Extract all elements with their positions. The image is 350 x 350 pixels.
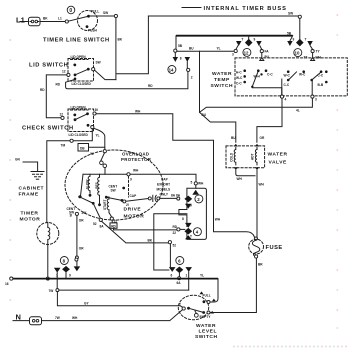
connector P1 (L1 disconnect plug): [29, 17, 41, 26]
svg-text:6: 6: [171, 274, 173, 278]
svg-text:C-C: C-C: [236, 82, 242, 86]
svg-text:WATER: WATER: [196, 323, 216, 329]
svg-text:BK: BK: [118, 38, 123, 42]
water temp switch contacts group 3: [310, 70, 327, 95]
svg-text:WH: WH: [135, 110, 141, 114]
svg-text:2W: 2W: [82, 211, 87, 215]
svg-text:9: 9: [190, 204, 192, 208]
svg-text:9: 9: [130, 178, 132, 182]
svg-text:SW: SW: [96, 61, 101, 65]
svg-text:OR: OR: [79, 247, 84, 251]
svg-text:PUSH: PUSH: [88, 29, 98, 33]
wire RD lid closed contact to timer 14 terminal 2: [56, 72, 188, 89]
svg-text:DB: DB: [80, 147, 85, 151]
svg-text:T: T: [190, 235, 192, 239]
svg-text:START: START: [103, 200, 107, 210]
svg-text:12: 12: [60, 113, 64, 117]
svg-text:PROTECTOR: PROTECTOR: [121, 157, 152, 162]
drive motor centrifugal switch upper: [105, 185, 129, 208]
wire YL full contact to neutral buss: [210, 279, 218, 302]
timer buss 2 (thick): [176, 32, 293, 36]
svg-text:7W: 7W: [55, 316, 60, 320]
svg-text:52: 52: [173, 244, 177, 248]
svg-text:1: 1: [186, 274, 188, 278]
svg-text:W-C: W-C: [299, 73, 306, 77]
svg-text:W-C: W-C: [236, 76, 243, 80]
svg-text:RES: RES: [95, 182, 99, 189]
svg-text:TM: TM: [61, 144, 66, 148]
wire 9 motor to contact 2: [127, 169, 204, 199]
svg-text:EXPORT: EXPORT: [157, 183, 170, 187]
wire GY to water level switch: [57, 292, 183, 308]
svg-text:6A: 6A: [177, 281, 182, 285]
svg-text:CAP: CAP: [130, 194, 138, 198]
terminal L1 label: [16, 16, 62, 25]
wire from contact box to contact 6: [154, 214, 187, 270]
svg-text:OR: OR: [79, 219, 84, 223]
svg-text:BU: BU: [189, 47, 194, 51]
svg-text:BK: BK: [148, 239, 153, 243]
svg-text:T: T: [305, 38, 307, 42]
wire RD motor 22 to contact 4: [114, 225, 185, 235]
lid switch: [62, 55, 101, 86]
box CAP EXPORT MODELS ONLY: [157, 178, 171, 197]
svg-text:YL: YL: [200, 274, 204, 278]
svg-text:9: 9: [69, 274, 71, 278]
timer contact 4: [182, 217, 201, 239]
svg-text:14: 14: [169, 67, 174, 72]
wire OR motor to contact 8: [75, 216, 84, 267]
water temp switch box: [235, 58, 347, 96]
svg-text:W-C: W-C: [284, 74, 291, 78]
water level switch: [178, 291, 211, 319]
svg-text:FA: FA: [265, 50, 270, 54]
svg-text:BU: BU: [202, 113, 207, 117]
motor terminal 22: [110, 217, 117, 224]
drive motor windings: [79, 174, 127, 206]
svg-text:8: 8: [180, 57, 182, 61]
svg-text:WH: WH: [133, 169, 139, 173]
svg-text:WH: WH: [259, 183, 265, 187]
svg-text:L1: L1: [58, 17, 62, 21]
svg-text:5: 5: [191, 181, 193, 185]
svg-text:9: 9: [293, 38, 295, 42]
svg-text:9: 9: [254, 38, 256, 42]
svg-text:RD: RD: [148, 84, 153, 88]
svg-text:2: 2: [191, 76, 193, 80]
neutral buss (thick): [5, 274, 218, 287]
svg-text:3l: 3l: [70, 214, 73, 218]
wire RD lid switch common down to check switch: [40, 75, 67, 118]
motor terminal 3l (OR): [70, 211, 87, 218]
svg-text:DRIVE: DRIVE: [124, 207, 142, 213]
svg-text:W-H: W-H: [254, 75, 261, 79]
internal timer buss: [148, 12, 301, 19]
svg-text:CHECK SWITCH: CHECK SWITCH: [22, 126, 74, 132]
svg-text:SWITCH: SWITCH: [211, 83, 234, 89]
svg-text:SW: SW: [111, 189, 116, 193]
svg-text:INTERNAL TIMER BUSS: INTERNAL TIMER BUSS: [204, 6, 287, 12]
wire WH check switch to fuse: [96, 110, 254, 237]
svg-text:8: 8: [182, 217, 184, 221]
label OVERLOAD PROTECTOR: [121, 152, 152, 163]
faint dotted page border right: [336, 14, 338, 329]
svg-text:C-C: C-C: [267, 73, 273, 77]
svg-text:BK: BK: [43, 17, 48, 21]
label TIMER MOTOR: [20, 211, 41, 223]
ground wire GN: [15, 158, 38, 172]
connector P2 (N disconnect plug): [30, 317, 42, 325]
svg-text:10: 10: [295, 51, 300, 56]
svg-text:WH: WH: [72, 316, 78, 320]
svg-text:H-C: H-C: [236, 71, 242, 75]
wire BR empty contact to fuse: [210, 258, 263, 313]
timer contact 6: [169, 257, 192, 291]
svg-text:2l: 2l: [126, 203, 129, 207]
label TIMER LINE SWITCH: [43, 38, 110, 44]
svg-text:FULL: FULL: [203, 294, 211, 298]
svg-text:LEVEL: LEVEL: [199, 329, 218, 335]
svg-text:OR: OR: [260, 136, 265, 140]
svg-text:SLOW: SLOW: [85, 180, 89, 190]
svg-text:MOTOR: MOTOR: [20, 217, 41, 223]
svg-text:FRAME: FRAME: [19, 192, 39, 198]
marker box RD on wire 22: [110, 220, 117, 230]
svg-text:0: 0: [69, 8, 72, 14]
water valve box: [226, 144, 265, 170]
svg-text:WATER: WATER: [212, 71, 232, 77]
drive motor dashed circle: [65, 150, 163, 220]
svg-text:TIMER LINE SWITCH: TIMER LINE SWITCH: [43, 38, 110, 44]
svg-text:WATER: WATER: [268, 152, 288, 158]
svg-text:4: 4: [285, 98, 287, 102]
wire 8A motor 52 to contact 6: [100, 221, 177, 267]
svg-text:LID CLOSED: LID CLOSED: [69, 133, 89, 137]
svg-text:YL: YL: [217, 47, 221, 51]
svg-text:OVERLOAD: OVERLOAD: [122, 152, 149, 157]
faint dotted page border bottom: [233, 346, 347, 348]
label WATER LEVEL SWITCH: [195, 323, 218, 340]
svg-text:C-C: C-C: [284, 83, 290, 87]
svg-text:5B: 5B: [287, 32, 292, 36]
svg-text:COLD: COLD: [229, 152, 233, 162]
wire OR from terminal 4 to water valve hot: [257, 98, 282, 142]
timer line switch: [65, 6, 117, 32]
wire YL check switch to overload protector: [94, 128, 105, 149]
svg-text:12: 12: [244, 50, 249, 55]
timer contact 10: [287, 18, 321, 59]
wire L1 lead: [20, 21, 65, 23]
svg-text:LID OPEN: LID OPEN: [71, 55, 87, 59]
svg-text:5B: 5B: [178, 44, 183, 48]
wire TM check switch to timer motor: [47, 129, 93, 223]
svg-text:BU: BU: [231, 136, 236, 140]
svg-text:ONLY: ONLY: [160, 193, 169, 197]
svg-text:12: 12: [62, 70, 66, 74]
svg-text:T: T: [179, 303, 181, 307]
overload protector: [100, 150, 107, 175]
wire 5B-BU-YL from contact 14 to temp switch: [177, 47, 234, 52]
svg-text:RD: RD: [111, 224, 116, 228]
svg-text:EMPTY: EMPTY: [200, 315, 212, 319]
timer contact 14: [168, 36, 193, 80]
svg-text:VALVE: VALVE: [269, 160, 288, 166]
contact bus box (cams 2 and 4): [179, 188, 207, 239]
capacitor C1: [126, 194, 180, 202]
svg-text:WH: WH: [237, 177, 243, 181]
motor terminal 52: [93, 218, 102, 226]
wire BU down to water valve cold: [200, 51, 237, 142]
wire WH water valve to fuse: [236, 170, 265, 237]
svg-text:WH: WH: [198, 182, 204, 186]
label LID SWITCH: [29, 63, 68, 69]
svg-text:52: 52: [93, 222, 97, 226]
svg-text:BR: BR: [258, 263, 263, 267]
svg-text:SW: SW: [103, 11, 108, 15]
svg-text:RD: RD: [40, 88, 45, 92]
timer motor: [37, 222, 59, 244]
svg-text:CABINET: CABINET: [19, 186, 45, 192]
svg-text:LID OPEN: LID OPEN: [71, 106, 87, 110]
svg-text:PULL: PULL: [91, 10, 99, 14]
svg-text:GN: GN: [15, 158, 20, 162]
svg-text:LID SWITCH: LID SWITCH: [29, 63, 68, 69]
svg-text:SWITCH: SWITCH: [195, 334, 218, 340]
timer contact 2: [176, 190, 203, 209]
svg-text:30: 30: [95, 108, 99, 112]
wire SW lid switch to bus: [95, 70, 116, 80]
label DRIVE MOTOR: [124, 207, 145, 220]
svg-text:SW: SW: [288, 12, 293, 16]
svg-text:WH: WH: [215, 218, 221, 222]
fuse F1: [249, 237, 264, 258]
wire from terminal 3 to BU node: [200, 98, 313, 112]
terminal 4 of temp switch: [280, 95, 286, 102]
svg-text:3: 3: [232, 53, 234, 57]
terminal 3 of temp switch: [311, 95, 317, 102]
svg-text:MODELS: MODELS: [157, 188, 171, 192]
svg-text:CAP: CAP: [161, 178, 169, 182]
drive motor start winding: [103, 197, 112, 217]
svg-text:FUSE: FUSE: [266, 245, 283, 251]
wire BK from timer line switch to bus: [116, 16, 148, 80]
svg-text:8A: 8A: [100, 225, 105, 229]
svg-text:3: 3: [315, 98, 317, 102]
water temp switch contacts group 2: [282, 70, 306, 95]
svg-text:RD: RD: [56, 83, 61, 87]
faint dotted page border left: [9, 39, 11, 301]
label WATER VALVE: [268, 152, 288, 166]
svg-text:16: 16: [5, 282, 9, 286]
svg-text:7W: 7W: [49, 289, 54, 293]
svg-text:C-C: C-C: [318, 74, 324, 78]
label CABINET FRAME: [19, 186, 45, 198]
svg-text:TIMER: TIMER: [21, 211, 39, 217]
svg-text:TEMP: TEMP: [214, 77, 230, 83]
svg-text:22: 22: [173, 231, 177, 235]
svg-text:HOT: HOT: [250, 154, 254, 161]
label WATER TEMP SWITCH: [211, 71, 234, 89]
svg-text:B-B: B-B: [318, 83, 324, 87]
svg-text:4L: 4L: [296, 109, 300, 113]
wire 7W contact 6 return: [49, 279, 189, 293]
legend INTERNAL TIMER BUSS: [182, 6, 287, 12]
ground (cabinet frame earth): [31, 172, 44, 180]
wire timer motor to neutral bus: [46, 245, 49, 281]
water temp switch contacts group 1: [236, 69, 282, 95]
svg-text:MOTOR: MOTOR: [124, 214, 145, 220]
label FUSE: [266, 245, 283, 251]
drive motor centrifugal switch lower: [67, 195, 101, 218]
svg-text:L1: L1: [16, 16, 25, 25]
timer contact 8: [54, 257, 80, 279]
timer contact 12: [232, 36, 270, 59]
wire N neutral lead: [13, 310, 183, 322]
svg-text:YL: YL: [96, 134, 100, 138]
svg-text:8A: 8A: [176, 194, 181, 198]
svg-text:T: T: [242, 38, 244, 42]
label CHECK SWITCH: [22, 126, 74, 132]
svg-text:LID CLOSED: LID CLOSED: [72, 82, 92, 86]
check switch: [60, 106, 99, 138]
resistor box DB: [78, 144, 105, 157]
